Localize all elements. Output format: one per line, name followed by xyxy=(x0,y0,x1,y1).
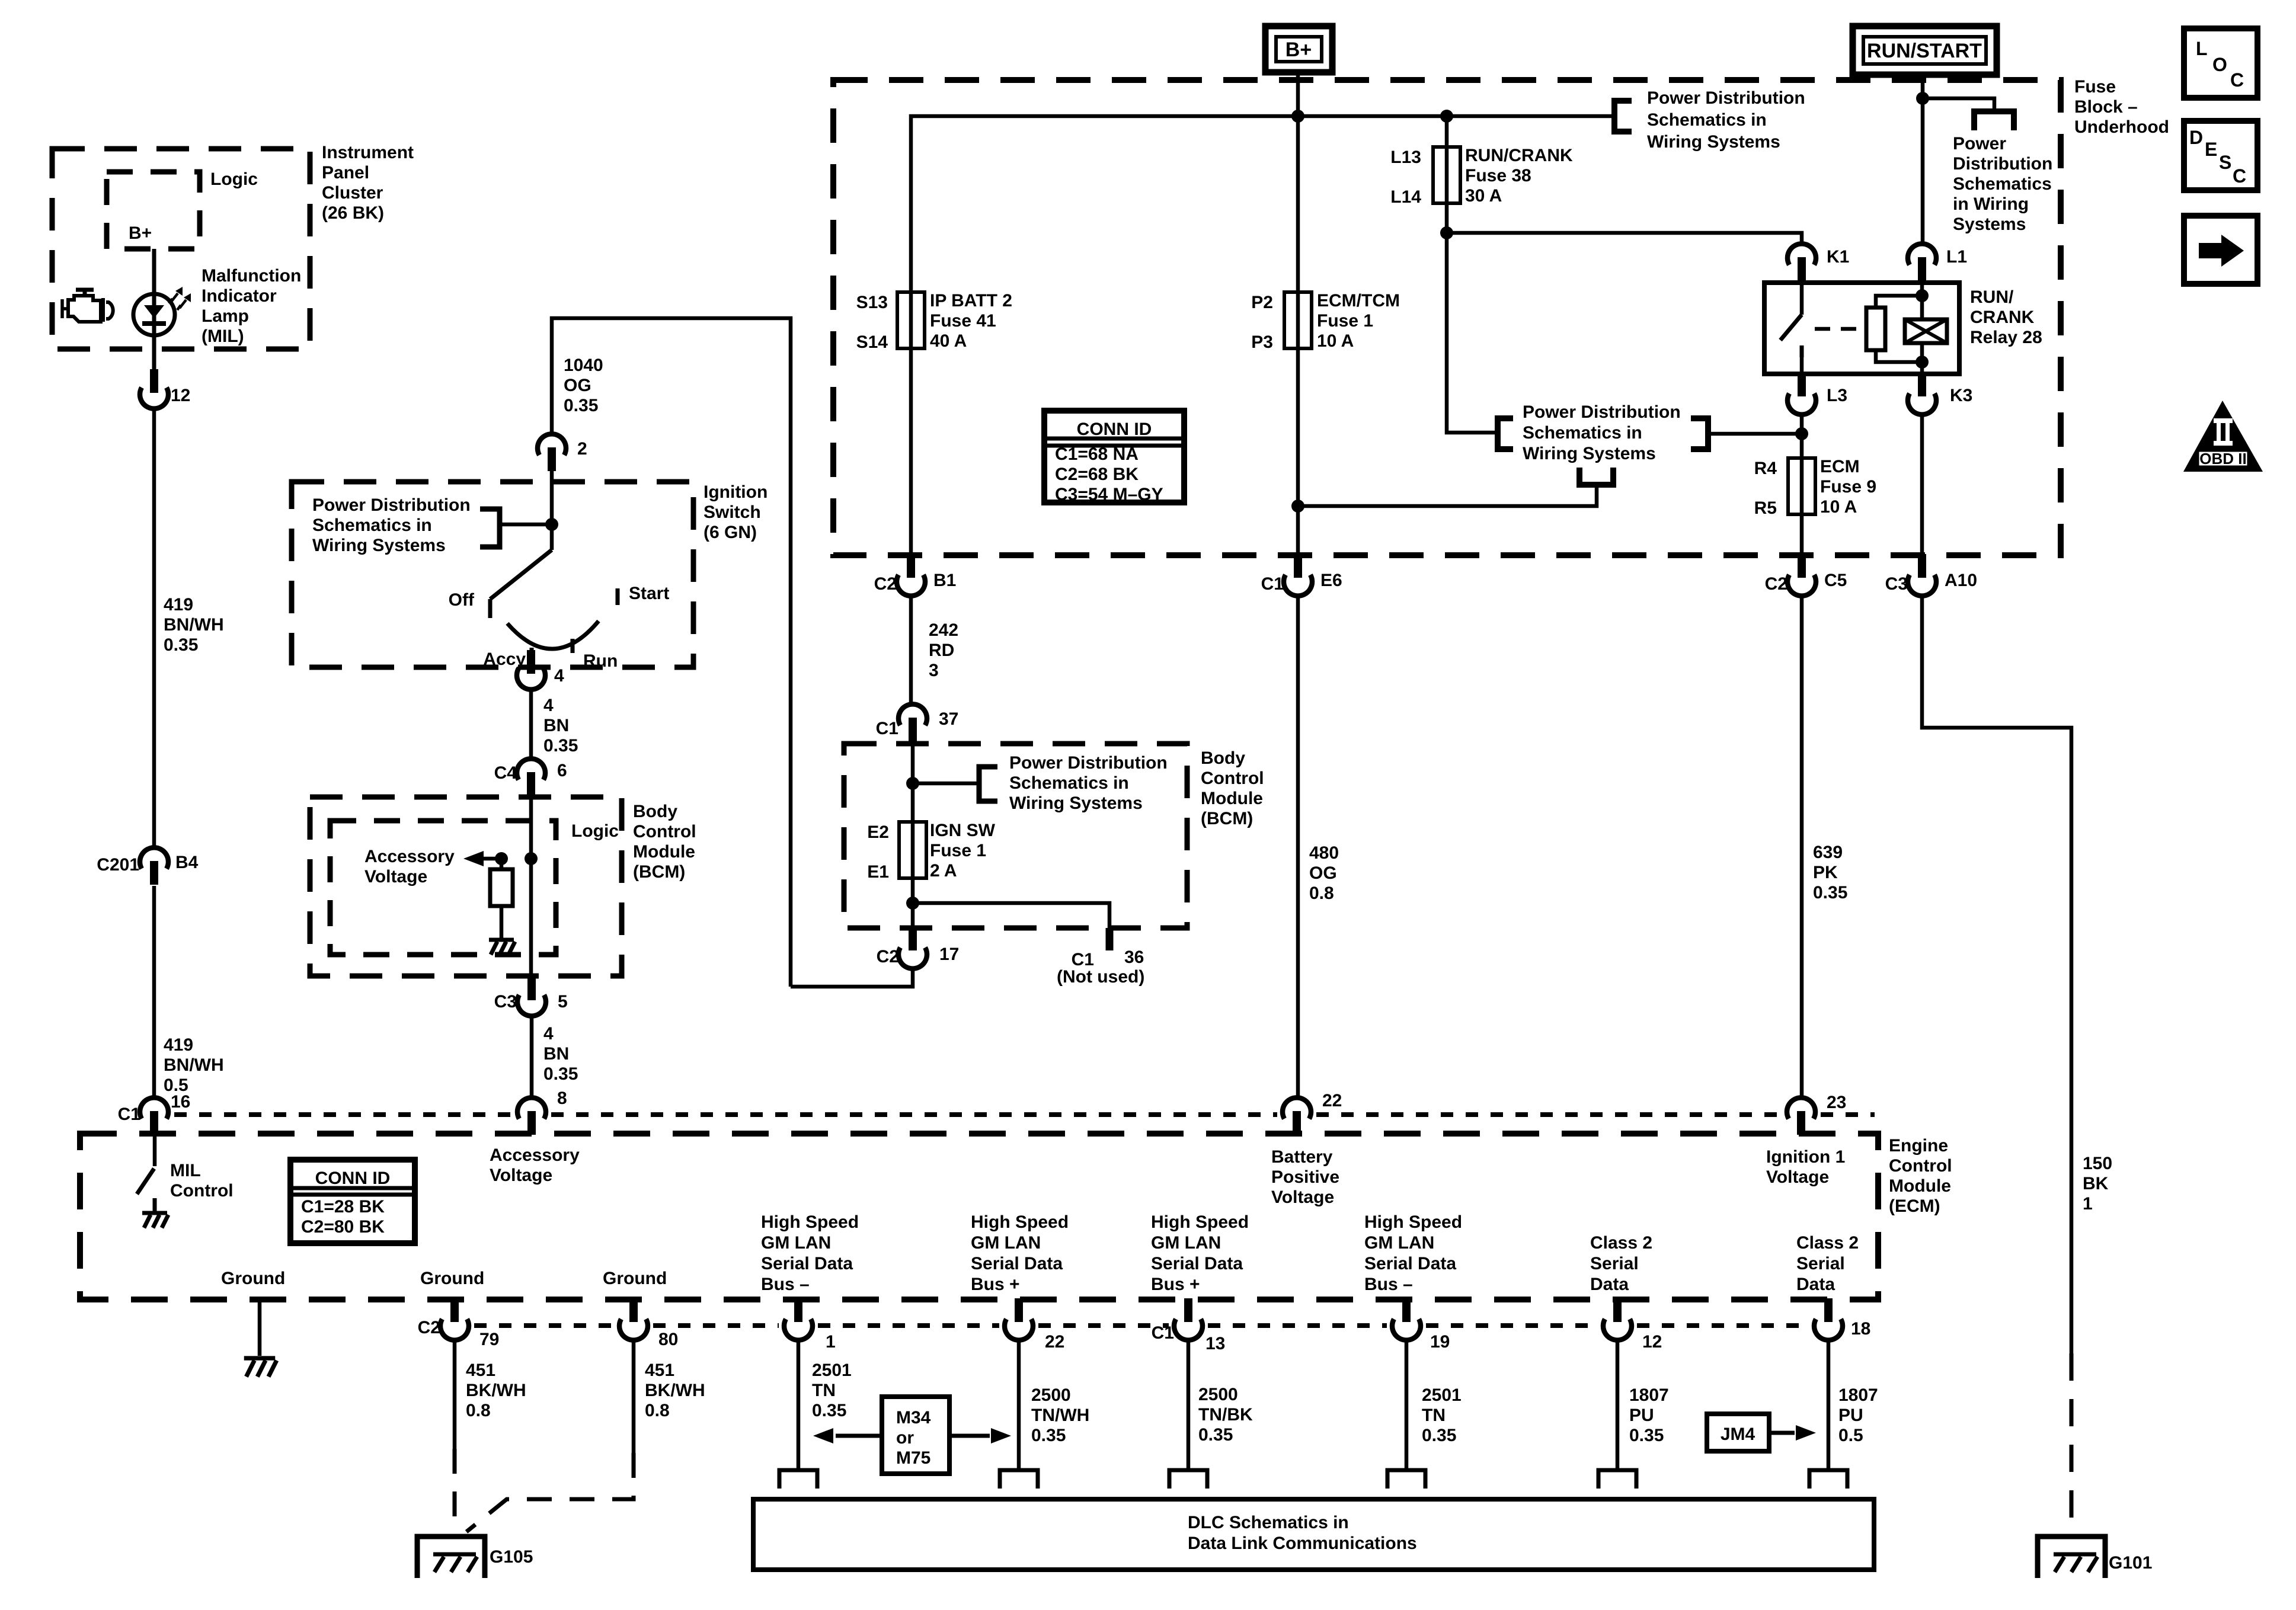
svg-text:Cluster: Cluster xyxy=(322,183,383,203)
svg-text:DLC Schematics in: DLC Schematics in xyxy=(1188,1513,1349,1532)
svg-text:C5: C5 xyxy=(1824,571,1847,590)
wire B+ box drop xyxy=(1296,72,1300,556)
node RUN/START header box xyxy=(1853,26,1997,75)
svg-text:0.8: 0.8 xyxy=(466,1401,491,1420)
svg-text:RUN/START: RUN/START xyxy=(1867,40,1982,62)
svg-text:C2=80 BK: C2=80 BK xyxy=(301,1217,385,1237)
svg-text:79: 79 xyxy=(479,1330,499,1349)
svg-text:High Speed: High Speed xyxy=(1151,1212,1249,1232)
svg-text:0.35: 0.35 xyxy=(1422,1426,1456,1445)
svg-text:0.5: 0.5 xyxy=(1838,1426,1863,1445)
splice JM4 box xyxy=(1707,1414,1769,1451)
Engine Control Module box dashed box xyxy=(80,1134,1878,1299)
DLC schematics bar xyxy=(753,1499,1874,1570)
svg-text:E: E xyxy=(2205,139,2217,160)
svg-text:2501: 2501 xyxy=(812,1361,852,1380)
svg-text:80: 80 xyxy=(658,1330,678,1349)
ground G105 xyxy=(417,1537,485,1578)
svg-text:1040: 1040 xyxy=(564,356,603,375)
wire fuse38 to K1 xyxy=(1447,233,1802,245)
svg-text:Bus –: Bus – xyxy=(761,1275,810,1294)
svg-text:C3=54 M–GY: C3=54 M–GY xyxy=(1055,485,1163,504)
svg-text:OBD II: OBD II xyxy=(2199,450,2246,468)
svg-text:S: S xyxy=(2219,152,2231,173)
connector C4 6 dome xyxy=(517,758,545,780)
svg-text:13: 13 xyxy=(1205,1334,1225,1353)
connector 2 pin xyxy=(548,447,556,471)
svg-text:419: 419 xyxy=(164,595,193,614)
svg-text:BK/WH: BK/WH xyxy=(645,1381,705,1400)
svg-text:C3: C3 xyxy=(494,992,517,1012)
svg-text:419: 419 xyxy=(164,1035,193,1055)
connector C1 13 cup xyxy=(1174,1319,1203,1340)
wire to Not-used 36 xyxy=(913,903,1109,928)
wire to DLC (18) xyxy=(1827,1339,1831,1470)
svg-text:Body: Body xyxy=(1201,748,1245,768)
svg-text:Distribution: Distribution xyxy=(1953,154,2052,174)
junction xyxy=(906,777,919,790)
svg-text:Serial: Serial xyxy=(1796,1254,1845,1273)
svg-text:10 A: 10 A xyxy=(1317,331,1354,351)
svg-text:10 A: 10 A xyxy=(1820,497,1857,517)
svg-text:C4: C4 xyxy=(494,763,517,783)
wire to power dist stub xyxy=(1923,98,1994,111)
engine icon xyxy=(62,299,68,318)
ignition switch pole xyxy=(550,471,554,550)
svg-text:C: C xyxy=(2233,165,2246,187)
connector 12 pin xyxy=(1613,1298,1622,1322)
Accy contact tick / wire xyxy=(530,648,534,671)
svg-text:IGN SW: IGN SW xyxy=(930,821,996,840)
ground in BCM logic xyxy=(489,940,515,955)
junction xyxy=(1916,356,1929,369)
svg-text:C1=28 BK: C1=28 BK xyxy=(301,1197,385,1217)
svg-text:GM LAN: GM LAN xyxy=(761,1233,831,1253)
terminal bracket xyxy=(779,1470,817,1489)
terminal bracket xyxy=(1598,1470,1636,1489)
svg-text:12: 12 xyxy=(171,386,190,405)
svg-text:Voltage: Voltage xyxy=(490,1166,552,1185)
svg-text:1807: 1807 xyxy=(1629,1385,1669,1405)
svg-text:Ground: Ground xyxy=(221,1269,285,1288)
fuse ECM Fuse 9 xyxy=(1788,458,1815,514)
svg-text:CONN ID: CONN ID xyxy=(1077,420,1152,439)
svg-text:Fuse 38: Fuse 38 xyxy=(1465,166,1531,185)
terminal bracket xyxy=(1809,1470,1847,1489)
svg-text:C201: C201 xyxy=(97,855,139,875)
junction xyxy=(525,852,538,865)
svg-text:or: or xyxy=(896,1428,914,1448)
svg-text:C2=68 BK: C2=68 BK xyxy=(1055,465,1139,484)
svg-text:Module: Module xyxy=(1201,789,1263,808)
svg-text:TN/WH: TN/WH xyxy=(1031,1406,1089,1425)
relay RUN/CRANK Relay 28 box xyxy=(1764,283,1959,374)
svg-text:Class 2: Class 2 xyxy=(1796,1233,1859,1253)
svg-text:Accessory: Accessory xyxy=(490,1145,580,1165)
MIL control switch xyxy=(153,1135,157,1166)
svg-text:Ignition 1: Ignition 1 xyxy=(1766,1147,1845,1167)
svg-text:C1: C1 xyxy=(1152,1323,1174,1343)
junction xyxy=(1291,500,1304,513)
MIL LED diode triangle xyxy=(144,305,164,318)
svg-text:L3: L3 xyxy=(1827,386,1847,405)
wire 242 RD 3 xyxy=(909,594,913,706)
callout bracket (BCM ign fuse) xyxy=(979,767,997,801)
connector 18 cup xyxy=(1814,1319,1843,1340)
relay coil wiring xyxy=(1876,296,1922,308)
svg-text:High Speed: High Speed xyxy=(971,1212,1069,1232)
svg-text:Schematics: Schematics xyxy=(1953,174,2052,194)
svg-text:D: D xyxy=(2189,127,2203,148)
svg-text:GM LAN: GM LAN xyxy=(971,1233,1041,1253)
svg-text:Run: Run xyxy=(583,651,618,671)
svg-text:639: 639 xyxy=(1813,843,1843,862)
svg-text:BN/WH: BN/WH xyxy=(164,1055,224,1075)
svg-text:L14: L14 xyxy=(1390,187,1421,207)
svg-text:Voltage: Voltage xyxy=(1271,1188,1334,1207)
fuse IGN SW Fuse 1 xyxy=(899,822,926,878)
svg-text:High Speed: High Speed xyxy=(1364,1212,1462,1232)
terminal bracket xyxy=(1000,1470,1038,1489)
svg-text:C2: C2 xyxy=(877,947,899,966)
svg-text:2500: 2500 xyxy=(1198,1385,1238,1404)
forward arrow box xyxy=(2184,216,2257,284)
svg-text:Wiring Systems: Wiring Systems xyxy=(1009,793,1143,813)
connector C1 16 dome xyxy=(140,1097,168,1119)
connector K1 dome xyxy=(1787,244,1816,265)
connector C2 17 pin xyxy=(909,927,917,950)
junction xyxy=(545,518,558,531)
svg-text:IP BATT 2: IP BATT 2 xyxy=(930,291,1012,311)
connector 22 pin xyxy=(1293,1111,1301,1135)
svg-text:GM LAN: GM LAN xyxy=(1364,1233,1434,1253)
connector C3 5 pin xyxy=(527,977,536,1000)
junction xyxy=(495,852,508,865)
svg-text:PU: PU xyxy=(1629,1406,1654,1425)
lamp MIL LED circle xyxy=(133,294,175,335)
ignition switch blade xyxy=(490,550,552,599)
svg-text:6: 6 xyxy=(557,761,567,780)
svg-text:in Wiring: in Wiring xyxy=(1953,194,2029,214)
svg-text:Logic: Logic xyxy=(210,169,258,189)
svg-text:C1: C1 xyxy=(876,719,898,738)
relay coil xyxy=(1866,308,1885,350)
wire B+ to MIL lamp xyxy=(152,249,156,382)
svg-text:0.35: 0.35 xyxy=(1031,1426,1066,1445)
svg-text:Power Distribution: Power Distribution xyxy=(1009,753,1168,773)
svg-text:Ignition: Ignition xyxy=(703,482,768,502)
svg-text:8: 8 xyxy=(557,1089,567,1108)
wire ignition feed top xyxy=(552,318,791,987)
connector 19 cup xyxy=(1392,1319,1421,1340)
connector 22 dome xyxy=(1283,1097,1311,1119)
callout bracket (B+ bus) xyxy=(1614,101,1632,132)
wire K3 to A10 xyxy=(1920,413,1924,556)
svg-text:(ECM): (ECM) xyxy=(1889,1196,1940,1216)
wire fuse38 to power distribution callout xyxy=(1447,233,1496,433)
svg-text:K3: K3 xyxy=(1950,386,1972,405)
svg-text:Power Distribution: Power Distribution xyxy=(1647,88,1805,108)
svg-text:22: 22 xyxy=(1322,1091,1342,1110)
svg-text:Accessory: Accessory xyxy=(364,847,455,866)
svg-text:Underhood: Underhood xyxy=(2074,117,2169,137)
connector C1 E6 pin xyxy=(1294,554,1302,578)
svg-text:480: 480 xyxy=(1309,843,1339,863)
svg-text:242: 242 xyxy=(929,620,958,640)
callout bracket (RUN/START power dist) xyxy=(1974,111,2014,130)
svg-text:Wiring Systems: Wiring Systems xyxy=(312,536,446,555)
svg-text:Off: Off xyxy=(449,590,475,610)
svg-text:C1=68 NA: C1=68 NA xyxy=(1055,444,1139,464)
svg-text:ECM/TCM: ECM/TCM xyxy=(1317,291,1400,311)
svg-text:E1: E1 xyxy=(867,862,889,882)
MIL LED cathode bar xyxy=(142,321,166,326)
svg-text:Serial Data: Serial Data xyxy=(971,1254,1063,1273)
svg-text:Battery: Battery xyxy=(1271,1147,1333,1167)
svg-text:1807: 1807 xyxy=(1838,1385,1878,1405)
wire 4 BN 0.35 xyxy=(529,687,533,760)
svg-text:JM4: JM4 xyxy=(1721,1425,1755,1444)
connector L3 cup xyxy=(1787,393,1816,415)
connector C3 A10 pin xyxy=(1918,554,1926,578)
svg-text:(MIL): (MIL) xyxy=(202,327,244,346)
connector 18 pin xyxy=(1824,1298,1833,1322)
svg-text:PK: PK xyxy=(1813,863,1838,882)
connector L3 pin xyxy=(1798,373,1806,396)
connector C2 B1 pin xyxy=(907,554,915,578)
connector C1 13 pin xyxy=(1184,1298,1192,1322)
svg-text:B+: B+ xyxy=(1285,39,1312,61)
CONN ID table (fuse block) xyxy=(1044,411,1184,502)
svg-text:16: 16 xyxy=(171,1092,190,1112)
svg-text:Malfunction: Malfunction xyxy=(202,266,301,286)
svg-text:2: 2 xyxy=(577,439,587,459)
svg-text:0.8: 0.8 xyxy=(645,1401,670,1420)
junction xyxy=(1291,110,1304,123)
connector C3 5 cup xyxy=(517,995,546,1016)
relay switch xyxy=(1800,283,1804,315)
ground G101 xyxy=(2038,1537,2105,1578)
wire E6 to callout xyxy=(1298,485,1597,506)
svg-text:TN: TN xyxy=(1422,1406,1446,1425)
wire 480 OG 0.8 xyxy=(1296,594,1300,1099)
OBD II symbol xyxy=(2183,401,2263,472)
svg-text:1: 1 xyxy=(2083,1194,2093,1214)
terminal bracket xyxy=(1387,1470,1425,1489)
svg-text:BN/WH: BN/WH xyxy=(164,615,224,635)
svg-text:B1: B1 xyxy=(933,571,956,590)
svg-text:Lamp: Lamp xyxy=(202,306,249,326)
svg-text:(BCM): (BCM) xyxy=(633,862,685,882)
svg-text:22: 22 xyxy=(1045,1332,1064,1352)
connector 23 dome xyxy=(1787,1097,1815,1119)
connector 12 cup xyxy=(1603,1319,1632,1340)
callout bracket (ignition switch) xyxy=(480,509,500,547)
svg-text:B4: B4 xyxy=(175,853,199,872)
svg-text:BK/WH: BK/WH xyxy=(466,1381,526,1400)
wire 419 BN/WH 0.5 xyxy=(152,886,156,1099)
svg-text:L13: L13 xyxy=(1390,148,1421,167)
svg-text:Control: Control xyxy=(1889,1156,1952,1176)
svg-text:0.35: 0.35 xyxy=(564,396,598,415)
wire RUN/START drop xyxy=(1921,75,1925,245)
svg-text:Accy: Accy xyxy=(483,649,526,669)
svg-text:150: 150 xyxy=(2083,1154,2112,1173)
connector C201 B4 dome xyxy=(140,847,168,869)
svg-text:4: 4 xyxy=(543,1024,554,1044)
svg-text:Block –: Block – xyxy=(2074,97,2138,117)
BCM box (accessory) dashed box xyxy=(310,797,622,976)
svg-text:Power: Power xyxy=(1953,134,2006,153)
connector 22 cup xyxy=(1005,1319,1033,1340)
svg-text:R5: R5 xyxy=(1754,498,1777,518)
svg-text:451: 451 xyxy=(466,1361,495,1380)
connector K3 cup xyxy=(1908,393,1936,415)
svg-text:OG: OG xyxy=(564,376,591,395)
svg-text:40 A: 40 A xyxy=(930,331,967,351)
svg-text:Data: Data xyxy=(1590,1275,1629,1294)
connector C1 E6 cup xyxy=(1284,575,1312,596)
wire L3 to fuse9 xyxy=(1800,413,1804,556)
svg-text:RD: RD xyxy=(929,641,954,660)
svg-text:Serial Data: Serial Data xyxy=(1364,1254,1456,1273)
svg-text:(6 GN): (6 GN) xyxy=(703,523,757,542)
svg-text:0.8: 0.8 xyxy=(1309,884,1334,903)
svg-text:R4: R4 xyxy=(1754,459,1777,478)
ECM top connector face dotted line xyxy=(174,1112,512,1117)
Fuse Block - Underhood dashed box xyxy=(833,80,2061,555)
DESC box xyxy=(2184,121,2257,190)
svg-text:36: 36 xyxy=(1124,948,1144,967)
wire B+ bus xyxy=(911,116,1614,556)
svg-text:E6: E6 xyxy=(1320,571,1342,590)
svg-text:ECM: ECM xyxy=(1820,457,1860,476)
svg-text:37: 37 xyxy=(939,709,958,729)
svg-text:2500: 2500 xyxy=(1031,1385,1071,1405)
connector C1 37 dome xyxy=(898,704,927,725)
svg-text:2501: 2501 xyxy=(1422,1385,1462,1405)
connector 22 pin xyxy=(1015,1298,1023,1322)
svg-text:0.35: 0.35 xyxy=(1629,1426,1664,1445)
wire 451 BK/WH 0.8 (80) xyxy=(632,1339,636,1453)
relay internal wire L1-K3 xyxy=(1920,283,1924,319)
BCM box (ign sw fuse) dashed box xyxy=(844,744,1187,928)
wire 419 BN/WH 0.35 xyxy=(152,406,156,849)
connector 2 dome xyxy=(538,434,566,455)
svg-text:Schematics in: Schematics in xyxy=(1647,110,1767,130)
svg-text:M75: M75 xyxy=(896,1448,930,1468)
wire to DLC (1) xyxy=(797,1339,801,1470)
svg-text:Fuse 1: Fuse 1 xyxy=(1317,311,1373,331)
svg-text:C2: C2 xyxy=(1765,574,1787,594)
svg-text:Module: Module xyxy=(633,842,695,862)
connector K3 pin xyxy=(1918,373,1926,396)
Off contact tick xyxy=(488,599,493,618)
wire to DLC (22) xyxy=(1017,1339,1021,1470)
connector 23 pin xyxy=(1797,1111,1805,1135)
svg-text:Switch: Switch xyxy=(703,502,761,522)
svg-text:17: 17 xyxy=(939,945,959,964)
connector 80 cup xyxy=(619,1319,648,1340)
connector C2 C5 pin xyxy=(1798,554,1806,578)
svg-text:CRANK: CRANK xyxy=(1970,308,2035,327)
svg-text:0.35: 0.35 xyxy=(1198,1425,1233,1445)
svg-text:12: 12 xyxy=(1642,1332,1662,1352)
svg-text:OG: OG xyxy=(1309,863,1337,883)
wire to DLC (C1 13) xyxy=(1187,1339,1191,1470)
connector C2 C5 cup xyxy=(1787,575,1816,596)
connector 8 pin xyxy=(527,1111,536,1135)
svg-text:MIL: MIL xyxy=(170,1161,201,1180)
accessory voltage arrow xyxy=(472,857,501,861)
svg-text:C2: C2 xyxy=(418,1318,440,1337)
svg-text:Serial: Serial xyxy=(1590,1254,1639,1273)
svg-text:Fuse 1: Fuse 1 xyxy=(930,841,986,860)
svg-text:A10: A10 xyxy=(1945,571,1977,590)
svg-text:Logic: Logic xyxy=(571,821,619,841)
Run contact tick xyxy=(571,639,575,653)
svg-text:Fuse: Fuse xyxy=(2074,77,2116,97)
fuse ECM/TCM Fuse 1 xyxy=(1284,292,1312,348)
junction xyxy=(1916,289,1929,302)
svg-text:S13: S13 xyxy=(856,293,888,312)
connector C1 37 pin xyxy=(909,718,917,741)
connector 4 pin xyxy=(527,650,535,674)
svg-text:C: C xyxy=(2230,69,2244,91)
svg-text:Bus +: Bus + xyxy=(1151,1275,1200,1294)
ECM bottom connector face dotted line xyxy=(474,1323,614,1328)
svg-text:Positive: Positive xyxy=(1271,1167,1339,1187)
svg-text:0.35: 0.35 xyxy=(543,736,578,756)
connector 1 pin xyxy=(794,1298,802,1322)
svg-text:Schematics in: Schematics in xyxy=(1009,773,1129,793)
LOC box xyxy=(2184,28,2257,98)
svg-text:RUN/: RUN/ xyxy=(1970,287,2014,307)
connector C2 79 cup xyxy=(440,1319,469,1340)
connector K1 pin xyxy=(1798,257,1806,281)
wire fuse38 drop xyxy=(1445,116,1449,234)
svg-text:0.35: 0.35 xyxy=(164,635,198,655)
wire 4 BN 0.35 lower xyxy=(530,1014,534,1099)
svg-text:Serial Data: Serial Data xyxy=(1151,1254,1243,1273)
wire 17 loop back to ignition switch xyxy=(791,967,913,987)
svg-text:BN: BN xyxy=(543,716,569,735)
svg-text:BK: BK xyxy=(2083,1174,2109,1193)
connector C1 16 pin xyxy=(150,1111,158,1135)
connector 4 cup xyxy=(517,668,545,690)
svg-text:Fuse 9: Fuse 9 xyxy=(1820,477,1876,497)
connector 12 cup xyxy=(140,388,168,409)
CONN ID table (ECM) xyxy=(290,1160,415,1243)
svg-text:TN: TN xyxy=(812,1381,836,1400)
node B+ header box xyxy=(1265,26,1332,72)
svg-text:Serial Data: Serial Data xyxy=(761,1254,853,1273)
svg-text:Ground: Ground xyxy=(420,1269,484,1288)
svg-text:C1: C1 xyxy=(118,1105,140,1124)
svg-text:Relay 28: Relay 28 xyxy=(1970,328,2042,347)
svg-text:Instrument: Instrument xyxy=(322,143,414,162)
svg-text:Voltage: Voltage xyxy=(1766,1167,1829,1187)
svg-text:0.35: 0.35 xyxy=(812,1401,846,1420)
svg-text:Panel: Panel xyxy=(322,163,369,183)
svg-text:Power Distribution: Power Distribution xyxy=(312,495,471,515)
svg-text:C1: C1 xyxy=(1261,574,1284,594)
junction xyxy=(1916,92,1929,105)
connector 80 pin xyxy=(629,1298,638,1322)
svg-text:M34: M34 xyxy=(896,1408,931,1427)
svg-text:0.35: 0.35 xyxy=(543,1064,578,1084)
svg-text:Control: Control xyxy=(170,1181,234,1201)
